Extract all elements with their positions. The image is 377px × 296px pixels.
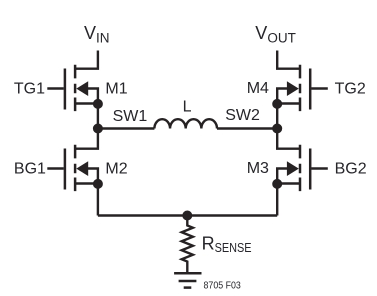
svg-text:BG1: BG1 — [14, 161, 46, 178]
node M2 source junction — [93, 179, 103, 189]
transistor M1 — [47, 65, 98, 111]
svg-text:BG2: BG2 — [335, 161, 367, 178]
svg-text:TG2: TG2 — [335, 81, 366, 98]
wire M1 source to SW1 — [97, 104, 99, 129]
wire V_OUT stub to M4 drain — [277, 51, 300, 69]
svg-text:SW1: SW1 — [113, 108, 148, 125]
wire bottom rail — [98, 214, 277, 216]
wire inductor to SW2 — [217, 127, 277, 129]
svg-text:M4: M4 — [247, 80, 269, 97]
wire M4 source to SW2 — [276, 104, 278, 129]
ground — [174, 273, 201, 287]
transistor M2 — [47, 145, 98, 191]
node R_SENSE junction — [182, 211, 192, 221]
svg-text:M3: M3 — [247, 160, 269, 177]
svg-text:M2: M2 — [105, 160, 127, 177]
svg-text:VOUT: VOUT — [255, 23, 296, 46]
svg-text:L: L — [183, 99, 192, 116]
svg-text:VIN: VIN — [84, 23, 110, 46]
node M3 source junction — [272, 179, 282, 189]
wire SW1 to inductor — [98, 127, 154, 129]
svg-text:M1: M1 — [105, 80, 127, 97]
wire M2 source to bottom rail — [97, 184, 99, 216]
resistor R_SENSE — [182, 216, 193, 273]
svg-text:RSENSE: RSENSE — [202, 233, 252, 255]
wire V_IN stub to M1 drain — [75, 51, 98, 69]
node SW1 junction — [93, 124, 103, 134]
node M4 source junction — [272, 99, 282, 109]
transistor M4 — [277, 65, 328, 111]
node M1 source junction — [93, 99, 103, 109]
transistor M3 — [277, 145, 328, 191]
wire SW1 to M2 drain — [75, 129, 98, 149]
inductor L — [154, 119, 217, 128]
svg-text:8705 F03: 8705 F03 — [204, 279, 241, 291]
wire M3 source to bottom rail — [276, 184, 278, 216]
node SW2 junction — [272, 124, 282, 134]
wire SW2 to M3 drain — [277, 129, 300, 149]
svg-text:TG1: TG1 — [14, 81, 45, 98]
svg-text:SW2: SW2 — [225, 107, 260, 124]
